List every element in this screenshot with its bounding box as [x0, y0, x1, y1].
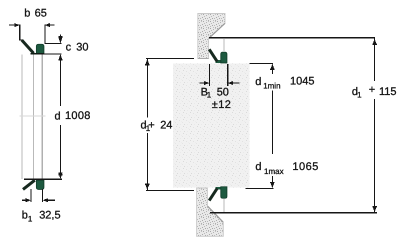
d1max down arrow with stem [270, 176, 274, 188]
bore extension line 1 (light) [22, 55, 23, 179]
extension line b1 right [42, 189, 43, 202]
bottom seal: green body [221, 187, 227, 198]
d1max reference line (block bottom, right) [246, 188, 274, 189]
svg-text:c: c [66, 41, 72, 53]
d1+115 dimension line with arrows [372, 39, 376, 213]
top seal: green body [221, 52, 227, 63]
B1 label "B1 50 ±12" [201, 86, 232, 111]
bottom seal: green base band [216, 187, 227, 190]
dimension line b right arrow [45, 23, 55, 27]
c dimension bottom / d top reference line [39, 54, 62, 55]
counterface column (bottom, dense stipple) [197, 188, 224, 236]
shaft bottom edge [198, 57, 209, 60]
B1 dimension right arrow [228, 81, 240, 85]
extension line b1 left [31, 189, 32, 202]
top seal: green base band [216, 60, 227, 63]
d dimension up arrow (below c bottom line) [58, 54, 62, 106]
svg-text:1max: 1max [264, 167, 284, 176]
svg-text:d: d [55, 110, 61, 122]
d1+24 bottom reference line [146, 190, 194, 191]
housing block (faint stipple) [173, 64, 250, 188]
top seal: green body [36, 44, 44, 53]
top seal: step edge [19, 40, 23, 41]
svg-text:65: 65 [35, 8, 47, 20]
dimension line b left arrow [9, 23, 20, 27]
svg-text:24: 24 [160, 119, 172, 131]
svg-text:d: d [255, 161, 261, 173]
d1min reference line (block top, right) [250, 63, 273, 64]
centre mark (faint horizontal) [19, 116, 45, 117]
svg-text:32,5: 32,5 [39, 210, 60, 222]
bore extension line 3 (light) [42, 55, 43, 179]
svg-text:30: 30 [76, 41, 88, 53]
d1min up arrow with stem [270, 64, 274, 74]
d dimension line lower segment with down arrow [58, 125, 62, 179]
svg-text:1008: 1008 [65, 110, 91, 122]
d label "d 1008" [55, 110, 91, 123]
d1min label "d 1min 1045" [255, 76, 314, 91]
svg-text:1065: 1065 [292, 161, 318, 173]
B1 dimension left arrow [200, 81, 210, 85]
d1+24 dimension line with arrows [145, 59, 149, 190]
d1min/d1max shared dimension line [272, 91, 273, 155]
extension line (light) above top seal [224, 39, 225, 51]
extension line (light) below bottom seal [224, 199, 225, 213]
B1 extension line left [209, 64, 210, 86]
bore extension line 2 (light) [33, 55, 34, 179]
top seal: flex lip (thick diagonal) [22, 40, 34, 53]
bottom seal: flex lip (thick diagonal) [23, 180, 35, 189]
svg-text:d: d [255, 76, 261, 88]
b1 label "b1 32,5" [22, 210, 61, 224]
B1 extension line right [227, 64, 228, 86]
svg-text:+: + [148, 119, 154, 131]
bottom reference line to d1+115 (y=212.9) [210, 212, 377, 213]
dimension line b1 right arrow [43, 198, 55, 202]
bottom seal: top edge line [24, 179, 62, 180]
extension line b left [19, 25, 20, 40]
c dimension top reference line [44, 43, 61, 44]
shaft chamfer edge [209, 23, 225, 38]
c label "c 30" [66, 41, 89, 53]
d1+24 label "d1+ 24" [141, 119, 173, 133]
d1+24 top reference line [146, 58, 194, 59]
d1+115 label "d1 + 115" [352, 84, 397, 100]
dimension line b1 left arrow [22, 198, 31, 202]
svg-text:1045: 1045 [290, 76, 314, 88]
bottom seal: flex lip diagonal [209, 188, 217, 200]
d1max label "d 1max 1065" [255, 161, 318, 176]
bottom seal: green body [36, 180, 44, 189]
extension line b right [44, 25, 45, 44]
svg-text:1: 1 [28, 215, 33, 224]
column chamfer edge [208, 206, 224, 222]
svg-text:±12: ±12 [212, 99, 231, 111]
top seal: flex lip diagonal [209, 49, 217, 61]
top seal: bottom edge (thick) [31, 53, 44, 55]
svg-text:1: 1 [357, 90, 362, 99]
svg-text:b: b [24, 8, 30, 20]
svg-text:+: + [369, 84, 375, 96]
shaft cross-section (top, dense stipple) [198, 14, 225, 59]
top reference line to d1+115 (y=37.9) [209, 37, 375, 38]
c dimension vertical line with down arrow [58, 35, 62, 44]
svg-text:50: 50 [217, 86, 229, 98]
svg-text:115: 115 [379, 86, 397, 98]
dimension b label "b 65" [24, 8, 47, 20]
svg-text:1min: 1min [263, 82, 280, 91]
